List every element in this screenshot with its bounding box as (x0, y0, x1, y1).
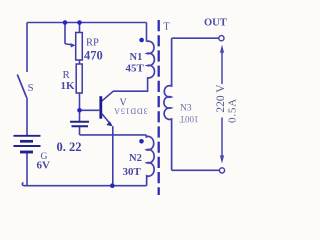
junction dot top rail left (wiper tap) (63, 20, 68, 25)
wire RP to R (79, 60, 81, 64)
junction dot bottom rail / emitter (110, 183, 115, 188)
wire N3 top to OUT terminal (172, 37, 219, 39)
wire left upper (top rail corner down to switch) (26, 23, 28, 73)
svg-text:470: 470 (84, 49, 103, 63)
svg-text:S: S (28, 82, 34, 94)
svg-text:0.5A: 0.5A (226, 98, 238, 123)
svg-text:220 V: 220 V (215, 84, 227, 113)
junction dot top rail right (RP feed) (77, 20, 82, 25)
wire top rail (27, 22, 147, 24)
svg-text:OUT: OUT (204, 18, 227, 29)
svg-text:45T: 45T (126, 63, 145, 75)
winding N2 phasing dot (139, 139, 144, 144)
transistor V emitter with arrow (102, 113, 112, 125)
terminal OUT bottom (219, 168, 224, 173)
svg-text:6V: 6V (37, 160, 51, 172)
wire emitter vertical to bottom rail (112, 126, 114, 186)
wire N3 bottom to OUT terminal (172, 169, 220, 171)
winding N3 coil with leads (164, 38, 172, 170)
svg-text:100T: 100T (179, 114, 199, 124)
switch S blade (17, 75, 26, 98)
output voltage arrow (double-headed) (220, 45, 224, 164)
svg-text:RP: RP (86, 38, 99, 49)
transistor V base bar (99, 96, 102, 119)
svg-text:N2: N2 (129, 153, 142, 164)
wire base node to transistor base (80, 109, 100, 111)
wire battery to bottom rail (26, 153, 28, 186)
battery G plates (14, 136, 41, 152)
svg-text:30T: 30T (123, 166, 142, 178)
potentiometer RP body (76, 33, 83, 61)
svg-text:N1: N1 (130, 52, 143, 63)
wire RP top feed (79, 23, 81, 33)
wire top rail corner down to N1 (146, 23, 148, 42)
potentiometer RP wiper arrow (65, 23, 76, 48)
svg-text:N3: N3 (180, 104, 192, 114)
wire bottom rail (24, 185, 147, 187)
wire bottom rail end hook (22, 183, 24, 186)
svg-text:T: T (164, 22, 170, 33)
wire base node to capacitor (79, 110, 81, 121)
wire collector link to N1 bottom (102, 78, 148, 102)
transformer core (dashed) (158, 20, 160, 195)
wire cap bottom across to N2 top (80, 134, 147, 136)
svg-text:1K: 1K (61, 80, 76, 92)
junction dot base node (77, 108, 82, 113)
wire R to base node (79, 93, 81, 110)
capacitor C 0.22 plates (70, 122, 89, 127)
winding N1 phasing dot (139, 38, 144, 43)
winding N2 coil (146, 135, 154, 186)
resistor R body (76, 64, 82, 93)
wire left lower (switch to battery) (26, 98, 28, 136)
wire capacitor bottom lead (79, 126, 81, 135)
terminal OUT top (219, 36, 224, 41)
svg-text:3DD15A: 3DD15A (113, 106, 147, 115)
winding N1 coil (147, 41, 155, 78)
svg-text:0. 22: 0. 22 (57, 140, 82, 154)
